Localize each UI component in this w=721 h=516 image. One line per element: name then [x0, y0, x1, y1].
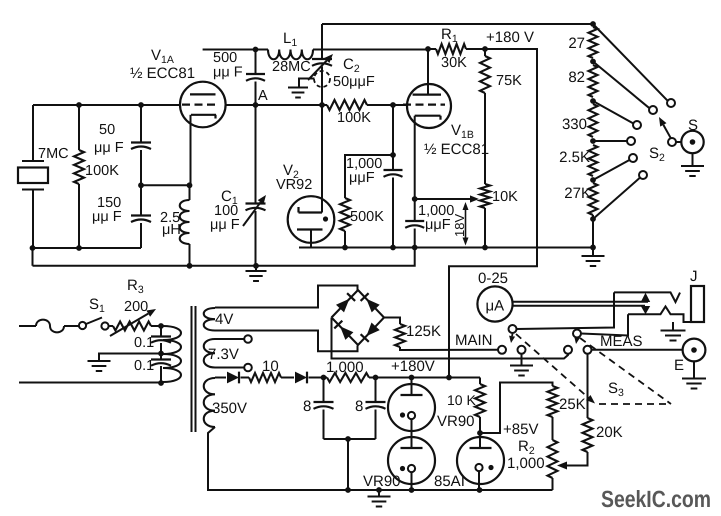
svg-text:27: 27 [568, 35, 585, 52]
node: C2/V2 anode tap on row A [319, 102, 325, 108]
wire: 25K to R2 [552, 417, 554, 440]
wire: +180V rail right and down to PSU [449, 49, 537, 378]
wire: MEAS contact to E jack [592, 349, 683, 351]
svg-text:8: 8 [303, 398, 311, 415]
svg-text:100K: 100K [85, 163, 119, 179]
wire: to 500K top [345, 155, 393, 198]
svg-text:MEAS: MEAS [600, 333, 643, 350]
svg-text:50: 50 [99, 122, 115, 138]
svg-text:0-25: 0-25 [478, 270, 508, 287]
node: caps junction y=185 [138, 182, 144, 188]
dimension arrows 18V [465, 210, 467, 222]
node: 2.5uH bottom [187, 263, 193, 269]
diode: bridge upper-left [336, 299, 349, 313]
wire: S2 tap 3 [593, 101, 633, 123]
svg-text:MAIN: MAIN [455, 332, 493, 349]
node: junction of V1A plate / 500uuF / L1 [253, 47, 259, 53]
svg-text:1,000: 1,000 [507, 455, 545, 472]
ground: S jack [692, 153, 694, 165]
capacitor 8uF (second) [375, 378, 377, 403]
svg-text:1,000: 1,000 [326, 359, 364, 376]
svg-text:+85V: +85V [503, 421, 538, 438]
diode D2 (HT rectifier) [295, 372, 307, 384]
regulator tube VR90 (lower) [388, 437, 435, 484]
wire: meter lead upper [513, 301, 648, 303]
wire: meter lead lower [513, 305, 645, 307]
node: crystal bottom [30, 245, 36, 251]
node: divider cap bottom [390, 245, 396, 251]
svg-text:+180 V: +180 V [486, 29, 534, 46]
wire: caps junction to cathode/coil node [141, 184, 190, 186]
node: cathode cap bottom [412, 245, 418, 251]
node: V1B cathode junction [412, 196, 418, 202]
svg-text:30K: 30K [441, 55, 467, 71]
svg-text:10 K: 10 K [447, 392, 476, 408]
capacitor 0.1 (upper line filter) [160, 326, 162, 337]
wire: 350V bottom to ground rail [208, 427, 348, 490]
wire: cap bottoms join [324, 438, 376, 440]
wire: divider mid node down [392, 105, 394, 155]
resistor 330 [589, 104, 598, 137]
resistor 10 ohm [241, 377, 250, 379]
potentiometer R2 1,000 [548, 440, 558, 478]
svg-text:μH: μH [162, 222, 181, 238]
jack J tip spring arm [614, 292, 680, 302]
svg-text:10: 10 [262, 358, 279, 375]
ground: PSU rail [378, 490, 380, 496]
wire: V1A plate to node, top row y=49.5 [203, 49, 256, 51]
wire: trimmer rotor to ground [299, 79, 315, 88]
wire: MAIN pivot to jack upper arm [517, 292, 615, 329]
resistor 500K [340, 198, 350, 231]
wire: PSU ground rail y=490 [208, 489, 553, 491]
wire: S2 tap 4 [593, 140, 627, 142]
node: left column top left [76, 102, 82, 108]
svg-text:27K: 27K [564, 185, 591, 202]
wire: S2 tap 2 [593, 62, 649, 109]
node: first filter cap 8uF [321, 375, 327, 381]
crystal 7MC [32, 105, 34, 161]
svg-text:330: 330 [562, 116, 587, 133]
capacitor 1000uuF (cathode) [414, 199, 416, 221]
capacitor 150uuF [140, 185, 142, 215]
wire: caps midpoint to ground [99, 354, 161, 361]
jack J ring spring arm [628, 307, 691, 323]
resistor 27 [589, 27, 598, 58]
wire: 85A1 plate to 25K top [480, 383, 548, 434]
node: +180V feed to amplifier [446, 375, 452, 381]
capacitor 50uuF [140, 105, 142, 143]
svg-text:E: E [674, 357, 684, 374]
wire: 4V top to bridge [215, 286, 358, 308]
capacitor C1 100uuF variable [255, 105, 257, 204]
resistor 100K (crystal shunt) [78, 105, 80, 150]
svg-text:μμF: μμF [425, 217, 451, 233]
svg-text:VR90: VR90 [363, 473, 401, 490]
node: chain bottom [590, 216, 596, 222]
ground: line filter [88, 360, 111, 362]
resistor 25K [548, 383, 553, 387]
linkage S3 dashed: horizontal bar [599, 403, 671, 405]
capacitor 0.1 (lower line filter) [151, 358, 171, 360]
resistor 2.5K [589, 145, 598, 176]
resistor 1,000 (smoothing) [324, 377, 328, 379]
node: chain top on +HT rail [590, 21, 596, 27]
contact: MAIN normally-closed [498, 346, 506, 354]
wire: grid row y=105 from left column to V1A [33, 104, 181, 106]
contact: S2 position 1 [667, 99, 675, 107]
ground: oscillator rail [255, 266, 257, 271]
regulator tube VR90 (upper) [409, 375, 415, 381]
wire: C2 branch vertical from top rail [321, 24, 323, 59]
wire: jack sleeve to ground [672, 322, 674, 330]
svg-text:μμ F: μμ F [92, 209, 122, 225]
wire: cathode rail y=247.5 [299, 247, 593, 249]
triode V1A 1/2 ECC81 [180, 82, 226, 128]
contact: MEAS normally-closed (bias line) [564, 346, 572, 354]
node: V1A cathode / 2.5uH top [187, 182, 193, 188]
contact: MEAS to E jack [584, 346, 592, 354]
wire: S2 tap 5 [593, 160, 630, 180]
switch S1 [79, 322, 86, 329]
svg-text:8: 8 [355, 398, 363, 415]
svg-text:28MC: 28MC [272, 59, 311, 75]
svg-text:μμ F: μμ F [213, 65, 243, 81]
transformer core [191, 306, 193, 432]
node: +85V / 85A1 plate [477, 430, 483, 436]
node: primary bottom [158, 380, 164, 386]
switch S2 wiper [668, 138, 676, 146]
contact: S2 position 4 [627, 137, 635, 145]
svg-text:½ ECC81: ½ ECC81 [130, 65, 195, 82]
contact: S2 position 3 [633, 121, 641, 129]
diode: bridge upper-right [366, 299, 379, 313]
svg-text:20K: 20K [596, 424, 623, 441]
svg-text:μμF: μμF [349, 170, 375, 186]
svg-text:μμ F: μμ F [94, 140, 124, 156]
contact: MAIN grounded [518, 346, 526, 354]
svg-text:2.5K: 2.5K [559, 149, 590, 166]
node A [253, 102, 259, 108]
rheostat R3 200 [110, 325, 114, 327]
node: V1B grid / divider top [390, 102, 396, 108]
triode V1B 1/2 ECC81 [407, 84, 451, 128]
node: caps bottom [345, 436, 351, 442]
ground: E jack [693, 361, 695, 378]
node: 2.5K/27K tap [590, 177, 596, 183]
wire: S2 tap 1 [593, 24, 668, 101]
node: PSU rail ground tap [376, 487, 382, 493]
diode: bridge lower-right [366, 323, 379, 337]
svg-text:18V: 18V [452, 214, 467, 237]
svg-text:0.1: 0.1 [134, 358, 154, 374]
wire: 20K top to MEAS contact [587, 354, 589, 418]
svg-text:4V: 4V [215, 311, 233, 328]
capacitor C2 50uuF variable with grounded trimmer rotor [312, 58, 332, 60]
wire: bridge DC+ to 125K [384, 318, 400, 325]
svg-text:½ ECC81: ½ ECC81 [424, 141, 489, 158]
wire: S2 tap 6 [593, 178, 640, 219]
wire: +180V row to 10K dropper [369, 377, 480, 379]
jack S (coax socket) [681, 131, 703, 153]
resistor 75K [484, 49, 486, 56]
linkage S3 dashed: MEAS pivot [580, 338, 671, 404]
svg-text:100K: 100K [337, 110, 371, 126]
jack J contact upper (triangle) [641, 293, 650, 302]
transformer 350V winding [204, 378, 215, 427]
svg-text:125K: 125K [406, 323, 441, 340]
svg-text:25K: 25K [559, 396, 586, 413]
transformer T1 primary winding [163, 326, 181, 382]
node: filter caps midpoint [158, 351, 164, 357]
svg-text:SeekIC.com: SeekIC.com [601, 486, 711, 512]
svg-text:350V: 350V [212, 400, 247, 417]
wire: R2 wiper from 20K [557, 462, 567, 470]
wire: left bottom rail y=248 [33, 247, 142, 249]
jack J body [691, 286, 704, 322]
wire: node A row to V2/100K branch [226, 104, 322, 106]
transformer 7.3V winding [204, 339, 215, 368]
rectifier bridge (4V bias supply) [332, 290, 385, 345]
svg-text:7.3V: 7.3V [208, 346, 239, 363]
resistor 125K [395, 324, 405, 347]
wire: bridge DC- to long bias line [332, 318, 569, 359]
node: +180V rail / 75K top [482, 46, 488, 52]
wire: top rail +HT from C2 top to band-switch chain [322, 23, 593, 25]
svg-text:A: A [258, 88, 268, 104]
svg-text:S: S [688, 117, 698, 134]
svg-text:500K: 500K [350, 209, 384, 225]
capacitor 8uF (first) [323, 378, 325, 403]
resistor 100K grid (horizontal) [322, 104, 327, 106]
svg-text:0.1: 0.1 [134, 335, 154, 351]
wire: 350V top to rectifier diode [215, 377, 226, 379]
svg-text:+180V: +180V [391, 358, 435, 375]
node: primary top [158, 323, 164, 329]
inductor 2.5uH cathode choke [189, 185, 191, 200]
wire: AC line top with pigtail [19, 325, 36, 327]
ground: chain bottom [592, 247, 594, 255]
resistor 10K (cathode pot) [480, 184, 490, 208]
capacitor 1000uuF (divider) [392, 155, 394, 170]
svg-text:7MC: 7MC [38, 146, 69, 162]
svg-text:VR92: VR92 [276, 177, 312, 193]
svg-text:200: 200 [124, 299, 148, 315]
wire: pot wiper arrow into 10K [415, 198, 470, 200]
node: left column top mid [138, 102, 144, 108]
node: chain ground junction [590, 245, 596, 251]
wire: lower ground rail y=265.8 [33, 248, 415, 266]
transformer 4V winding [204, 308, 215, 331]
capacitor 500uuF coupling [255, 50, 257, 75]
inductor L1 28MC [268, 50, 313, 60]
svg-text:85AI: 85AI [434, 473, 465, 490]
wire: 7.3V top terminal [215, 338, 244, 340]
svg-text:50μμF: 50μμF [333, 74, 375, 90]
node: 10K bottom [482, 245, 488, 251]
wire: MEAS pivot to jack lower arm [581, 314, 628, 335]
node: 85A1 cathode to ground rail [477, 487, 483, 493]
svg-text:VR90: VR90 [437, 413, 475, 430]
node: 330/2.5K tap [590, 138, 596, 144]
meter M 0-25 uA [477, 286, 512, 321]
node: 82/330 tap [590, 98, 596, 104]
ground: C2 trimmer [288, 87, 308, 89]
node: V1B plate / R1 [425, 46, 431, 52]
svg-text:82: 82 [568, 69, 585, 86]
node: 100K bottom [76, 245, 82, 251]
svg-text:10K: 10K [492, 189, 518, 205]
ground: jack J [661, 330, 686, 332]
node: 1000uuF/500K junction [390, 152, 396, 158]
svg-text:75K: 75K [496, 73, 522, 89]
node: +180V output cap [373, 375, 379, 381]
node: VR90 stack to ground rail [409, 487, 415, 493]
diode: bridge lower-left [340, 326, 353, 340]
svg-text:μμ F: μμ F [210, 217, 240, 233]
switch S3a MAIN wiper pivot [509, 325, 517, 333]
wire: top row from C2 to V1B plate junction [322, 49, 428, 51]
regulator tube V2 VR92 [321, 105, 323, 213]
resistor 27K [589, 183, 598, 215]
regulator tube 85A1 [479, 433, 481, 448]
linkage S3 dashed: MAIN pivot [516, 334, 591, 400]
svg-text:J: J [690, 268, 698, 285]
resistor 82 [589, 65, 598, 97]
resistor 10K (dropper) [479, 378, 481, 385]
switch S3b MEAS wiper pivot [573, 330, 581, 338]
wire: AC line bottom [19, 382, 161, 384]
wire: 4V bottom to bridge [215, 331, 358, 352]
contact: S2 position 6 [639, 171, 647, 179]
contact: S2 position 2 [649, 106, 657, 114]
wire: wiper to S jack [676, 141, 681, 143]
wire: 125K to MAIN contact [400, 347, 498, 350]
contact: S2 position 5 [629, 154, 637, 162]
jack J contact lower (triangle) [641, 306, 650, 314]
node: 500K bottom [342, 245, 348, 251]
diode D1 (HT rectifier) [222, 377, 226, 379]
node: C1 bottom / ground tap [253, 263, 259, 269]
node: caps to ground rail [345, 487, 351, 493]
resistor 20K [583, 418, 593, 452]
ground: MAIN contact [521, 354, 523, 365]
node: 27/82 tap [590, 59, 596, 65]
jack E (coax socket) [683, 339, 706, 362]
svg-text:μA: μA [486, 298, 505, 315]
wire: 7.3V bottom terminal [215, 367, 244, 369]
resistor R1 30K [428, 48, 436, 50]
